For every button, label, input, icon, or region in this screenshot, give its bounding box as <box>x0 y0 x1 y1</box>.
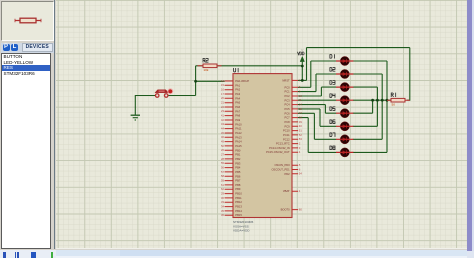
wire PC4 to LED D5 <box>298 105 336 114</box>
svg-text:PC7: PC7 <box>284 116 290 120</box>
left panel: preview box <box>1 1 54 41</box>
device list box <box>1 53 51 250</box>
svg-text:PA1: PA1 <box>235 83 240 87</box>
svg-text:PB9: PB9 <box>235 187 241 191</box>
stop icon sliver <box>31 252 36 258</box>
wire button right to node <box>168 95 196 97</box>
svg-text:50: 50 <box>392 103 396 107</box>
svg-text:10k: 10k <box>203 68 208 72</box>
MCU U1 right pin numbers <box>299 78 302 211</box>
svg-text:PC15-OSC32_OUT: PC15-OSC32_OUT <box>266 150 290 154</box>
node bus D5 junction <box>371 99 374 102</box>
wire top return <box>307 47 410 49</box>
MCU footer text <box>233 220 254 232</box>
MCU U1 left pin numbers <box>221 79 224 217</box>
svg-text:PC1: PC1 <box>284 90 290 94</box>
wire PC1 to LED D2 <box>298 74 336 92</box>
LED D5 <box>330 107 354 118</box>
svg-text:PB2: PB2 <box>235 157 241 161</box>
LED D4 <box>330 94 354 105</box>
svg-text:PC4: PC4 <box>284 103 290 107</box>
svg-text:PA5: PA5 <box>235 101 240 105</box>
svg-text:PC9: PC9 <box>284 124 290 128</box>
wire R2 row to VDD stem <box>196 65 303 67</box>
wire PC7 to LED D8 <box>298 118 336 153</box>
wire PC6 to LED D7 <box>298 113 336 139</box>
svg-text:PB4: PB4 <box>235 166 241 170</box>
wire PC2 to LED D3 <box>298 87 336 96</box>
wire LED D2 to cathode bus <box>353 74 382 100</box>
wire PC3 to LED D4 <box>298 99 336 101</box>
MCU U1 <box>234 68 236 72</box>
wire LED D1 to cathode bus <box>353 61 387 100</box>
svg-text:PA6: PA6 <box>235 105 240 109</box>
preview resistor symbol <box>14 16 42 25</box>
svg-text:PC3: PC3 <box>284 98 290 102</box>
svg-text:PC0: PC0 <box>284 85 290 89</box>
svg-text:PC14-OSC32_IN: PC14-OSC32_IN <box>269 146 290 150</box>
play icon sliver <box>3 252 6 258</box>
svg-text:PC8: PC8 <box>284 120 290 124</box>
svg-text:PA15: PA15 <box>235 144 242 148</box>
svg-text:PA3: PA3 <box>235 92 240 96</box>
svg-text:PA9: PA9 <box>235 118 240 122</box>
svg-text:PC2: PC2 <box>284 94 290 98</box>
wire button left to ground <box>135 96 155 115</box>
junction dots <box>194 65 388 102</box>
svg-text:PB15: PB15 <box>235 213 242 217</box>
wire cathode bus row to R1 <box>353 99 391 101</box>
svg-text:PC10: PC10 <box>283 129 290 133</box>
LED D8 <box>330 146 354 157</box>
LED D3 <box>330 81 354 92</box>
node VDD/R2 junction <box>301 65 304 68</box>
svg-text:OSCOUT_PD1: OSCOUT_PD1 <box>271 168 290 172</box>
L button <box>11 44 18 51</box>
svg-text:PB11: PB11 <box>235 196 242 200</box>
svg-text:VDDA=VDD: VDDA=VDD <box>233 229 250 233</box>
wire vertical R2-left/button node <box>195 66 197 96</box>
LED D6 <box>330 120 354 131</box>
svg-text:PA8: PA8 <box>235 114 240 118</box>
DEVICES label plate <box>22 43 54 51</box>
wire PC5 to LED D6 <box>298 109 336 126</box>
wire LED D5 to cathode bus <box>353 100 373 113</box>
svg-text:OSCIN_PD0: OSCIN_PD0 <box>274 163 290 167</box>
svg-text:PA2: PA2 <box>235 88 240 92</box>
svg-text:PB5: PB5 <box>235 170 241 174</box>
vertical scrollbar <box>467 0 472 251</box>
svg-text:PA13: PA13 <box>235 135 242 139</box>
svg-text:PA14: PA14 <box>235 140 242 144</box>
wire VDD stem <box>301 62 303 81</box>
svg-text:PA4: PA4 <box>235 96 240 100</box>
svg-text:PA0-WKUP: PA0-WKUP <box>235 79 249 83</box>
node button/R2/PA0 junction <box>194 80 197 83</box>
wire LED D7 to cathode bus <box>353 100 382 139</box>
svg-text:NRST: NRST <box>282 78 290 82</box>
wire right drop to R1 <box>407 48 410 101</box>
horizontal scrollbar <box>56 248 467 249</box>
node bus D1/D8 junction <box>386 99 389 102</box>
svg-text:PB1: PB1 <box>235 153 241 157</box>
svg-text:PB8: PB8 <box>235 183 241 187</box>
svg-text:PD2: PD2 <box>284 172 290 176</box>
resistor R1 <box>387 93 410 107</box>
svg-text:PB10: PB10 <box>235 192 242 196</box>
step icon sliver <box>15 252 17 258</box>
svg-text:PA10: PA10 <box>235 122 242 126</box>
wire PC0 to LED D1 <box>298 61 336 87</box>
svg-text:BOOT0: BOOT0 <box>281 208 291 212</box>
node bus D3/D6 junction <box>376 99 379 102</box>
svg-text:PA12: PA12 <box>235 131 242 135</box>
button SW <box>155 89 173 98</box>
svg-text:PB12: PB12 <box>235 200 242 204</box>
wire LED D6 to cathode bus <box>353 100 378 126</box>
P button <box>3 44 10 51</box>
MCU U1 right pin stubs <box>292 80 298 209</box>
svg-text:PA7: PA7 <box>235 109 240 113</box>
svg-text:PC5: PC5 <box>284 107 290 111</box>
wire VDD net riser <box>306 48 308 81</box>
object selector toolbar <box>1 43 54 53</box>
node VDD/NRST junction <box>301 79 304 82</box>
wire node to PA0 pin <box>196 80 225 82</box>
svg-text:PC12: PC12 <box>283 137 290 141</box>
wire LED D8 to cathode bus <box>353 100 387 152</box>
node bus D2/D7 junction <box>381 99 384 102</box>
MCU U1 right pin labels <box>266 78 290 211</box>
bottom-left sim control slivers <box>0 250 56 258</box>
resistor R2 <box>198 59 222 73</box>
LED D2 <box>330 68 354 79</box>
svg-text:PB13: PB13 <box>235 205 242 209</box>
svg-text:PB3: PB3 <box>235 161 241 165</box>
LED D1 <box>330 55 354 66</box>
svg-text:VBAT: VBAT <box>283 189 290 193</box>
power VDD <box>298 49 305 62</box>
svg-text:PB6: PB6 <box>235 174 241 178</box>
pause/green icon sliver <box>51 252 53 258</box>
ground <box>131 115 140 120</box>
LEDs D1-D8 <box>330 55 354 157</box>
MCU U1 left pin stubs <box>225 81 233 215</box>
wire NRST to VDD net <box>298 79 307 81</box>
svg-text:PC6: PC6 <box>284 111 290 115</box>
LED D7 <box>330 133 354 144</box>
wire LED D3 to cathode bus <box>353 87 378 100</box>
canvas left frame line <box>54 0 55 249</box>
svg-text:PA11: PA11 <box>235 127 242 131</box>
svg-text:PB7: PB7 <box>235 179 241 183</box>
svg-text:PB0: PB0 <box>235 148 241 152</box>
MCU U1 left pin labels <box>235 79 249 217</box>
svg-text:PC13_RTC: PC13_RTC <box>276 142 290 146</box>
svg-text:PB14: PB14 <box>235 209 242 213</box>
svg-text:PC11: PC11 <box>283 133 290 137</box>
